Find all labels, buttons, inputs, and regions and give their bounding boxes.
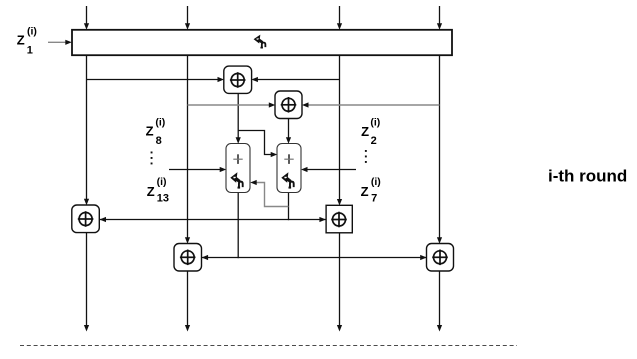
svg-text:13: 13: [157, 193, 169, 205]
svg-text:2: 2: [371, 135, 377, 147]
svg-text:(i): (i): [157, 176, 167, 188]
svg-text:(i): (i): [155, 116, 165, 128]
svg-text:Z: Z: [17, 33, 25, 48]
svg-text:i-th round: i-th round: [548, 167, 627, 186]
svg-text:1: 1: [27, 44, 33, 56]
svg-text:Z: Z: [361, 184, 369, 199]
svg-text:(i): (i): [370, 116, 380, 128]
svg-text:8: 8: [156, 135, 162, 147]
svg-text:Z: Z: [361, 124, 369, 139]
svg-text:Z: Z: [146, 124, 154, 139]
svg-text:Z: Z: [147, 184, 155, 199]
svg-text:7: 7: [371, 193, 377, 205]
svg-text:(i): (i): [371, 176, 381, 188]
svg-text:(i): (i): [27, 25, 37, 37]
